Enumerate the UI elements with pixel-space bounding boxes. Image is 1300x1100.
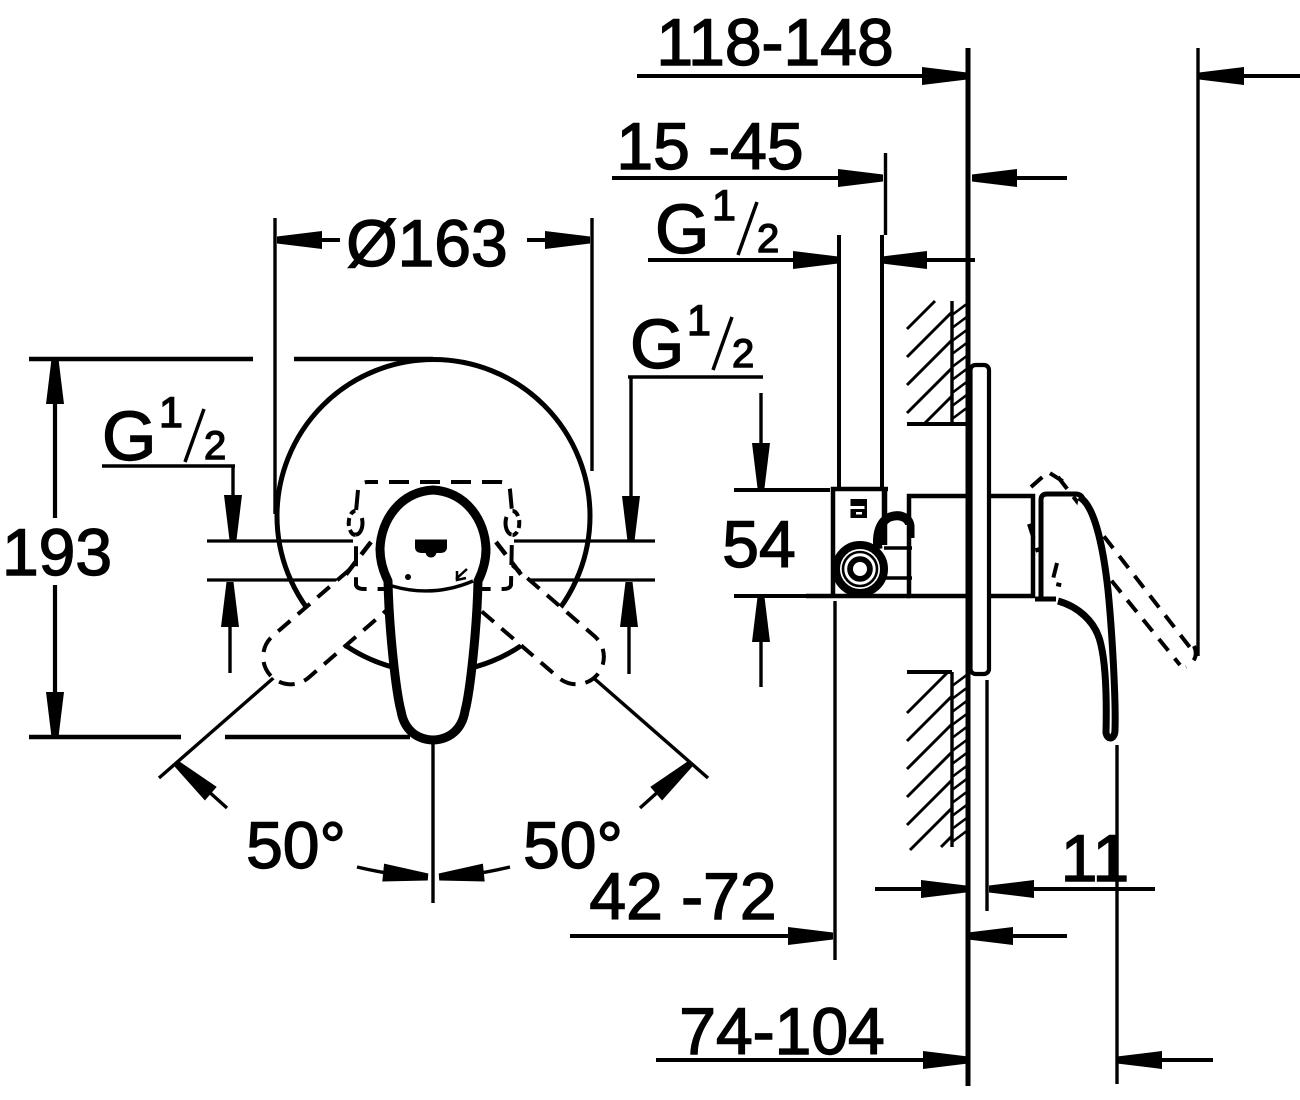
ext line lever tip	[1115, 745, 1118, 1084]
svg-text:1: 1	[159, 389, 183, 437]
dim 163 extension right	[590, 218, 593, 471]
svg-text:54: 54	[722, 507, 795, 581]
ear bump left	[349, 511, 356, 535]
screw black square	[851, 499, 868, 518]
lever position dashed left	[252, 526, 436, 695]
dim 74-104	[656, 1058, 929, 1062]
arrow up to lower pipe left	[221, 582, 239, 627]
dim 193 vertical line	[53, 390, 57, 518]
angle arrow right	[650, 761, 692, 800]
dim 11	[875, 887, 928, 891]
svg-text:118-148: 118-148	[656, 5, 893, 79]
dim 193 arrow up	[46, 359, 64, 404]
angle arc arrow right	[439, 867, 510, 877]
svg-text:1: 1	[687, 297, 711, 345]
dim 163 extension left	[273, 218, 276, 514]
supply pipe vertical right line	[880, 235, 884, 489]
leader G 1/2 front left	[102, 464, 235, 467]
union nut circles	[836, 545, 884, 593]
dashed lever up position	[1029, 472, 1196, 667]
svg-text:Ø163: Ø163	[346, 206, 507, 280]
lever position dashed right	[431, 526, 615, 695]
svg-text:2: 2	[204, 424, 226, 468]
handle base side	[1041, 494, 1084, 599]
handle lever front	[380, 490, 486, 740]
ext line dashed lever tip	[1196, 48, 1199, 656]
rear elbow hook	[878, 516, 911, 549]
angle arc arrow left	[357, 867, 428, 877]
lower wall tile strip line	[950, 672, 953, 847]
upper wall tile strip line	[950, 301, 953, 424]
svg-text:11: 11	[1061, 821, 1130, 895]
connector line lower	[886, 576, 912, 580]
dim 163 arrow right	[545, 231, 590, 249]
hidden pipe diagonal left	[344, 542, 371, 577]
supply pipe vertical left line	[837, 235, 841, 489]
dim 193 top reference line	[29, 357, 253, 361]
cartridge housing	[909, 496, 1033, 596]
lower wall top line	[907, 670, 952, 674]
leader G 1/2 front right	[628, 375, 763, 378]
svg-text:50°: 50°	[246, 808, 346, 882]
upper wall bottom line	[907, 422, 968, 426]
wall face line	[966, 48, 971, 1086]
upper wall tile hatch ticks	[952, 303, 968, 419]
handle tick marker	[456, 569, 467, 580]
ext line supply block	[833, 601, 836, 960]
angle ray left	[159, 646, 310, 778]
angle ray right	[557, 646, 708, 778]
dim 118-148	[637, 74, 930, 78]
dim 54	[734, 488, 830, 492]
mousseur slot black pill	[415, 540, 447, 554]
svg-text:74-104: 74-104	[679, 994, 885, 1068]
dim 163 arrow left	[277, 231, 322, 249]
lower wall hatching	[907, 672, 952, 850]
dim G 1/2 side arrows	[648, 258, 796, 262]
ext line body back plane	[884, 153, 887, 235]
dim 15-45	[612, 176, 846, 180]
centerline below lever	[431, 738, 434, 903]
ear bump right	[513, 511, 520, 535]
svg-text:15 -45: 15 -45	[616, 109, 803, 183]
svg-text:G: G	[655, 190, 709, 268]
dim 193 arrow down	[46, 692, 64, 737]
escutcheon circle Ø163	[277, 360, 590, 673]
lower wall tile hatch ticks	[952, 674, 968, 842]
concealed body dashed outline	[356, 482, 512, 589]
handle dot marker	[405, 574, 411, 580]
handle base bottom line	[1035, 597, 1056, 602]
angle arrow left	[175, 761, 217, 800]
connector line upper	[884, 546, 912, 550]
svg-text:2: 2	[757, 217, 779, 261]
hidden pipe diagonal right	[496, 542, 523, 577]
svg-text:193: 193	[2, 515, 112, 589]
lever side solid	[1058, 497, 1115, 738]
wire supply line upper right	[514, 539, 655, 542]
dim 42-72	[570, 934, 795, 938]
dim 193 bottom reference line	[29, 735, 181, 739]
svg-text:42 -72: 42 -72	[589, 859, 776, 933]
supply connection block	[833, 489, 888, 596]
wire supply line lower right	[514, 578, 655, 581]
wire supply line lower left	[207, 578, 353, 581]
handle collar line	[392, 581, 473, 591]
ext line plate front	[985, 680, 988, 911]
escutcheon plate side	[971, 365, 990, 674]
upper wall hatching	[907, 301, 952, 424]
arrow up to lower pipe right	[620, 582, 638, 627]
wire supply line upper left	[207, 539, 353, 542]
svg-text:G: G	[102, 397, 156, 475]
svg-text:G: G	[630, 305, 684, 383]
svg-text:2: 2	[732, 332, 754, 376]
svg-text:1: 1	[712, 182, 736, 230]
